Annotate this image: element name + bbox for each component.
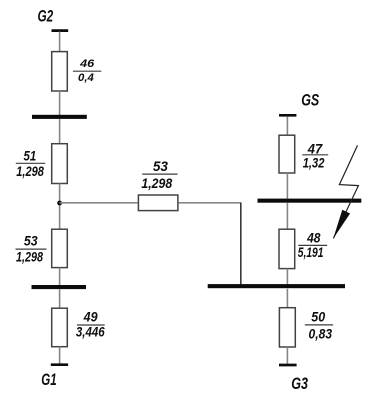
bus bar 2 (lower left) bbox=[32, 285, 87, 289]
impedance element 53 vertical (box) bbox=[52, 229, 68, 267]
wire impedance 46 to bus 1 bbox=[59, 91, 61, 115]
node A (junction dot) bbox=[57, 201, 62, 206]
svg-text:49: 49 bbox=[83, 310, 98, 325]
wire impedance 47 to bus 3 bbox=[286, 173, 288, 199]
value label 51/1,298 bbox=[16, 149, 46, 179]
impedance element 53 horizontal (box) bbox=[138, 195, 178, 211]
wire bus 4 to impedance 50 bbox=[286, 289, 288, 308]
fault lightning arrow (short-circuit marker) bbox=[333, 145, 358, 238]
generator G3 terminal bbox=[279, 364, 297, 367]
generator G1 label bbox=[41, 370, 56, 389]
impedance element 51 (box) bbox=[52, 144, 68, 184]
svg-text:1,32: 1,32 bbox=[303, 155, 325, 170]
svg-text:46: 46 bbox=[79, 58, 95, 70]
wire impedance 51 to node A bbox=[59, 184, 61, 230]
wire impedance 53h to corner bbox=[179, 202, 242, 204]
wire impedance 49 to G1 terminal bbox=[59, 347, 61, 364]
impedance element 49 (box) bbox=[52, 308, 68, 347]
value label 53/1,298 (left branch) bbox=[16, 234, 47, 265]
generator G3 label bbox=[291, 374, 308, 393]
wire impedance 53 to bus 2 bbox=[59, 268, 61, 286]
bus bar 1 (upper left) bbox=[32, 115, 87, 119]
svg-text:51: 51 bbox=[24, 149, 37, 164]
wire node A to impedance 53 horizontal bbox=[60, 202, 138, 204]
impedance element 46 (box) bbox=[52, 52, 68, 91]
svg-text:47: 47 bbox=[307, 141, 324, 156]
wire bus 2 to impedance 49 bbox=[59, 289, 61, 308]
bus bar 4 (lower right) bbox=[208, 284, 345, 288]
bus bar 3 (upper right) bbox=[258, 199, 362, 203]
svg-text:53: 53 bbox=[24, 234, 38, 249]
value label 48/5,191 bbox=[298, 230, 327, 259]
svg-text:G1: G1 bbox=[41, 370, 56, 389]
value label 50/0,83 bbox=[305, 310, 333, 342]
generator GS label bbox=[301, 91, 320, 110]
svg-text:1,298: 1,298 bbox=[141, 176, 172, 191]
value label 53/1,298 (tie branch) bbox=[141, 159, 177, 191]
value label 46/0,4 bbox=[73, 58, 101, 84]
generator G1 terminal bbox=[51, 363, 68, 366]
wire impedance 48 to bus 4 bbox=[286, 269, 288, 285]
generator G2 terminal bbox=[52, 29, 69, 32]
impedance element 48 (box) bbox=[279, 229, 295, 268]
impedance element 47 (box) bbox=[279, 135, 295, 173]
generator G2 label bbox=[38, 6, 54, 25]
svg-text:5,191: 5,191 bbox=[298, 245, 324, 260]
wire G2 terminal to reactance 46 bbox=[59, 32, 61, 53]
wire bus 1 to impedance 51 bbox=[59, 119, 61, 144]
svg-text:48: 48 bbox=[306, 230, 321, 245]
svg-text:1,298: 1,298 bbox=[16, 249, 43, 264]
svg-text:GS: GS bbox=[301, 91, 320, 110]
wire corner down to bus 4 bbox=[240, 203, 242, 286]
wire GS terminal to impedance 47 bbox=[286, 116, 288, 135]
svg-text:3,446: 3,446 bbox=[76, 325, 105, 340]
value label 47/1,32 bbox=[302, 141, 328, 170]
impedance element 50 (box) bbox=[279, 308, 295, 347]
svg-text:53: 53 bbox=[153, 159, 168, 174]
wire impedance 50 to G3 terminal bbox=[286, 347, 288, 364]
svg-text:50: 50 bbox=[311, 310, 325, 325]
svg-text:0,83: 0,83 bbox=[309, 327, 333, 342]
svg-text:G2: G2 bbox=[38, 6, 54, 25]
generator GS terminal bbox=[279, 114, 296, 117]
svg-text:0,4: 0,4 bbox=[78, 72, 95, 84]
value label 49/3,446 bbox=[76, 310, 105, 340]
wire bus 3 to impedance 48 bbox=[286, 203, 288, 230]
svg-text:G3: G3 bbox=[291, 374, 308, 393]
svg-text:1,298: 1,298 bbox=[16, 164, 44, 179]
